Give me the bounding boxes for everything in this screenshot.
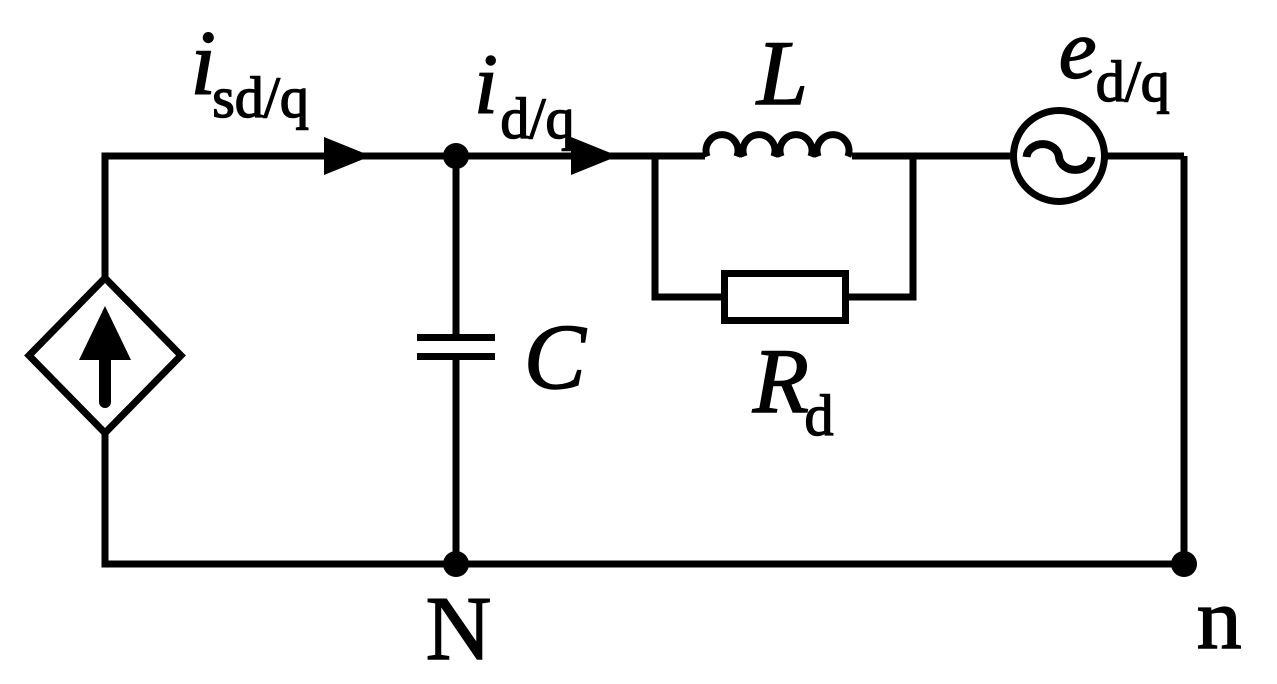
arrow i_d/q on top wire [571, 137, 618, 175]
current source I1 diamond [29, 278, 181, 433]
svg-text:N: N [426, 578, 492, 679]
svg-text:d/q: d/q [500, 86, 574, 151]
wire right vertical [1181, 156, 1188, 564]
capacitor C wire lower [453, 353, 460, 564]
svg-text:d: d [805, 383, 834, 448]
svg-text:sd/q: sd/q [212, 65, 309, 130]
wire left vertical upper (corner to current source) [102, 153, 109, 282]
svg-text:i: i [474, 36, 498, 132]
arrow i_sd/q on top wire [324, 137, 371, 175]
wire top from node A to inductor [456, 153, 705, 160]
label e_d/q [1059, 3, 1170, 115]
label i_d/q [474, 36, 575, 151]
parallel branch right vertical wire [910, 153, 917, 298]
wire top from source corner to node A [105, 153, 456, 160]
svg-text:d/q: d/q [1096, 49, 1170, 114]
wire left vertical lower (current source to bottom wire) [102, 430, 109, 568]
svg-text:L: L [755, 22, 808, 124]
label i_sd/q [190, 12, 308, 130]
current source I1 arrow [79, 306, 131, 402]
svg-text:R: R [752, 330, 809, 432]
svg-text:n: n [1197, 570, 1242, 667]
inductor L coil [706, 135, 849, 157]
wire from resistor to right branch [849, 294, 917, 301]
label Rd [752, 330, 834, 448]
resistor Rd box [725, 274, 846, 321]
svg-text:e: e [1059, 3, 1097, 97]
wire bottom [105, 561, 1184, 568]
AC source E1 sine wave [1027, 144, 1092, 170]
node n junction dot [1171, 551, 1197, 577]
wire from inductor to AC source and on to right corner [852, 153, 1184, 160]
capacitor C wire upper [453, 156, 460, 341]
capacitor C plates [417, 338, 495, 357]
AC source E1 circle [1014, 111, 1105, 202]
node A junction dot [443, 143, 469, 169]
svg-text:C: C [524, 306, 587, 409]
parallel branch left vertical wire [652, 153, 659, 298]
node N junction dot [443, 551, 469, 577]
wire from left branch to resistor [652, 294, 722, 301]
